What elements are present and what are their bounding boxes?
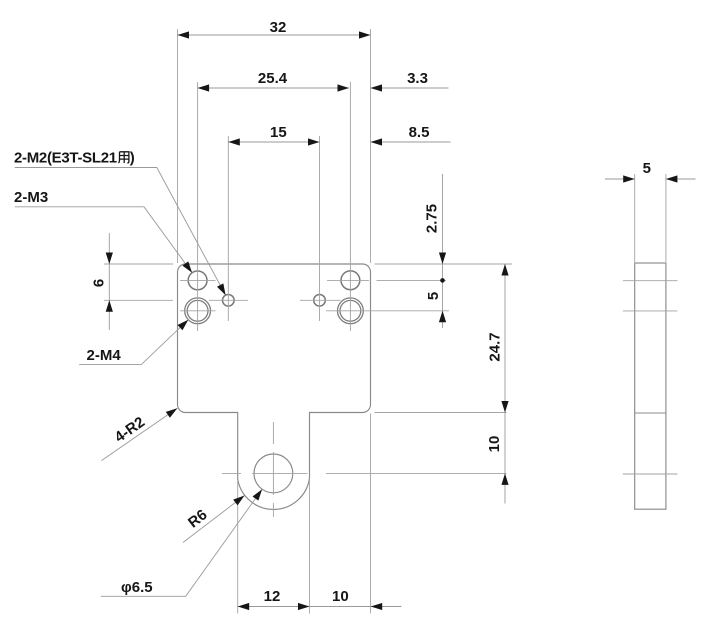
arrow 15 left	[228, 138, 240, 145]
arrow 5 side right	[666, 175, 678, 182]
dimension line 2.75 and 5	[442, 174, 444, 328]
svg-text:R6: R6	[185, 506, 211, 531]
arrow 25.4 right	[338, 84, 350, 91]
svg-text:25.4: 25.4	[258, 70, 288, 87]
arrow 32 right	[359, 31, 371, 38]
arrow 5 bottom	[439, 311, 446, 323]
hole M4 right inner	[340, 300, 361, 321]
svg-text:3.3: 3.3	[407, 70, 428, 87]
extension line top edge right y=264	[375, 263, 513, 265]
dimension line 15	[228, 141, 319, 143]
svg-text:24.7: 24.7	[487, 332, 504, 361]
extension line body bottom right y=412.5	[375, 412, 507, 414]
arrow 6 bottom	[106, 300, 113, 312]
dimension line 8.5	[371, 141, 451, 143]
leader 2-M3	[15, 207, 192, 273]
side view centerline M4 row	[623, 310, 678, 312]
label kanji yo	[119, 152, 129, 163]
svg-text:12: 12	[264, 588, 281, 605]
arrow 12 right	[298, 603, 310, 610]
centerline vertical M2 left x=228.3	[227, 136, 229, 321]
arrow 32 left	[178, 31, 190, 38]
leader phi6.5	[101, 489, 262, 596]
leader 4-R2	[101, 408, 177, 460]
centerline M2 row left extension y=300.3	[104, 299, 173, 301]
centerline tab hole row y=473.4	[222, 472, 507, 474]
arrow 8.5	[371, 138, 383, 145]
dot terminator 2.75/5	[440, 278, 445, 283]
arrow 12 left	[238, 603, 250, 610]
leader R6	[183, 496, 245, 543]
dimension line 12 and 10 bottom	[238, 606, 402, 608]
side view centerline hole row	[623, 473, 678, 475]
svg-text:2.75: 2.75	[424, 204, 441, 233]
svg-text:5: 5	[425, 292, 442, 300]
arrow 3.3	[371, 84, 383, 91]
centerline M3 row left y=280.4	[180, 279, 216, 281]
svg-text:8.5: 8.5	[409, 124, 430, 141]
leader 2-M2	[15, 168, 226, 296]
svg-text:6: 6	[91, 279, 108, 287]
hole M4 right outer	[338, 298, 364, 324]
side view rectangle	[635, 263, 666, 509]
hole M3 left	[188, 271, 207, 290]
extension line left edge top x=177.5	[177, 29, 179, 263]
dimension line 25.4	[198, 87, 349, 89]
arrow leader 4-R2	[166, 405, 180, 417]
svg-text:32: 32	[270, 19, 287, 36]
svg-text:5: 5	[643, 160, 651, 177]
hole M2 left	[223, 295, 235, 307]
dimension line 6	[108, 233, 110, 330]
svg-text:10: 10	[486, 436, 503, 453]
hole M3 right	[341, 271, 360, 290]
part outline front view	[178, 264, 371, 509]
dimension line 5 side view	[605, 178, 696, 180]
extension line tab left x=237.7	[237, 481, 239, 614]
arrow 25.4 left	[198, 84, 210, 91]
centerline M2 row right hole y=300.3	[300, 299, 341, 301]
arrow 6 top	[106, 253, 113, 265]
centerline vertical hole col1 x=197.6	[197, 82, 199, 331]
centerline vertical M2 right x=319.5	[319, 136, 321, 321]
side view body bottom edge line	[635, 412, 666, 414]
svg-text:2-M4: 2-M4	[87, 347, 122, 364]
centerline vertical tab hole x=273.4	[272, 422, 274, 517]
arrow leader R6	[233, 493, 247, 506]
svg-text:φ6.5: φ6.5	[121, 579, 153, 596]
svg-text:15: 15	[270, 124, 287, 141]
arrow 10 right vertical	[501, 473, 508, 485]
side view extension lines for 5 dim	[635, 174, 666, 262]
extension line right edge top x=370.5	[370, 29, 372, 263]
centerline M4 row right with extension y=310.8	[326, 310, 449, 312]
svg-text:): )	[130, 150, 135, 167]
arrow leader M4	[177, 317, 190, 330]
extension line top edge left y=264	[104, 263, 173, 265]
arrow 5 side left	[623, 175, 635, 182]
hole M2 right	[314, 295, 326, 307]
arrow 10 bottom	[371, 603, 383, 610]
svg-text:2-M2(E3T-SL21: 2-M2(E3T-SL21	[14, 150, 117, 167]
centerline vertical hole col2 x=350.4	[349, 82, 351, 331]
extension line tab right x=309.5	[309, 480, 311, 614]
svg-text:2-M3: 2-M3	[14, 189, 48, 206]
centerline M2 row left hole y=300.3	[209, 299, 248, 301]
hole M4 left inner	[187, 300, 208, 321]
arrow leader M2	[217, 283, 229, 297]
hole phi6.5	[254, 454, 293, 493]
arrow leader phi6.5	[252, 487, 265, 501]
side view centerline M3 row	[623, 280, 678, 282]
dimension line 32	[178, 34, 371, 36]
arrow leader M3	[182, 261, 195, 275]
arrow 15 right	[308, 138, 320, 145]
arrow 24.7 bottom	[501, 401, 508, 413]
arrow 24.7 top	[501, 264, 508, 276]
svg-text:10: 10	[332, 588, 349, 605]
arrow 2.75	[439, 253, 446, 265]
extension line right edge bottom x=370.5	[370, 414, 372, 614]
centerline M4 row left y=310.8	[180, 310, 216, 312]
hole M4 left outer	[185, 298, 211, 324]
leader 2-M4	[79, 320, 188, 365]
centerline M3 row right with extension y=280.4	[327, 279, 446, 281]
dimension line 24.7 and 10	[504, 264, 506, 504]
dimension line 3.3	[371, 87, 449, 89]
